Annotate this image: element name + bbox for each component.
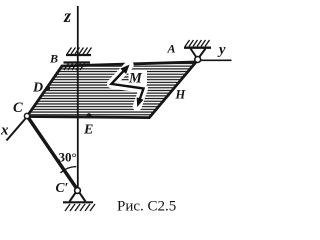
rod C-C' [29,118,78,189]
svg-text:C′: C′ [56,180,69,195]
plate BAHC (hatched parallelogram) [27,62,196,118]
y axis [201,59,232,61]
svg-text:A: A [167,42,176,56]
hinge support at C' [63,188,95,211]
point D [46,86,51,91]
svg-text:30°: 30° [59,150,77,165]
bearing support at B: upper bar [66,48,92,56]
node C (small circle) [24,113,29,118]
30 degree arc [61,167,77,173]
svg-text:B: B [49,52,58,66]
svg-text:Рис. С2.5: Рис. С2.5 [117,199,176,215]
point E [87,113,92,118]
bearing support at B: lower bar [64,63,91,71]
svg-text:z: z [63,6,71,26]
z axis [77,6,79,189]
svg-text:x: x [0,123,9,139]
hinge support at A [184,40,211,63]
svg-text:C: C [13,100,23,116]
moment M white clearing [111,65,147,106]
svg-text:y: y [217,42,226,58]
x axis [7,119,26,141]
svg-text:E: E [83,123,93,138]
svg-text:H: H [175,88,187,102]
svg-text:D: D [32,81,43,96]
moment M bent arrow [111,65,143,107]
svg-text:M: M [128,71,143,87]
